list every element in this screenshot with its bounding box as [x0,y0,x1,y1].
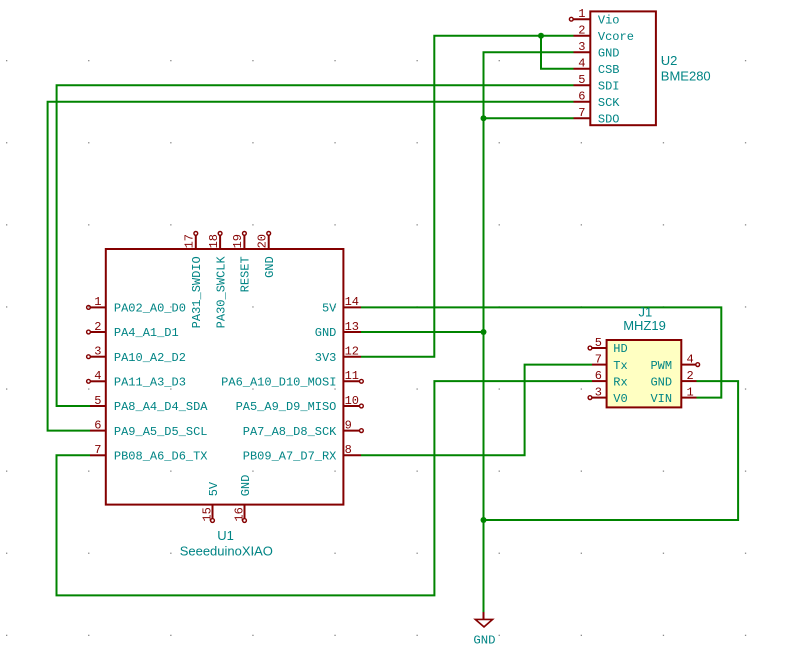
U1 pin 7 PB08_A6_D6_TX [90,443,208,463]
svg-text:GND: GND [598,46,620,60]
svg-text:11: 11 [345,369,359,383]
wire U1 GND branch [361,331,484,333]
svg-text:GND: GND [315,326,337,340]
svg-text:2: 2 [687,369,694,383]
U1 reference label [217,528,234,543]
J1 pin 6 Rx [592,369,628,389]
svg-text:3: 3 [578,40,585,54]
svg-text:5V: 5V [322,302,337,316]
svg-text:U1: U1 [217,528,234,543]
U2 pin 6 SCK [574,90,621,110]
svg-text:5: 5 [94,394,101,408]
svg-text:Rx: Rx [613,375,627,389]
svg-text:GND: GND [239,475,253,497]
U2 pin 4 CSB [574,57,620,77]
svg-text:RESET: RESET [239,256,253,292]
wire 5V to VIN [361,307,721,397]
U1 pin 20 GND [256,232,278,278]
IC U2 BME280 body [590,11,656,125]
svg-text:3: 3 [94,345,101,359]
svg-text:4: 4 [94,369,101,383]
svg-text:PA11_A3_D3: PA11_A3_D3 [114,376,186,390]
U2 pin 7 SDO [574,106,620,126]
svg-text:SDI: SDI [598,79,620,93]
svg-text:PA9_A5_D5_SCL: PA9_A5_D5_SCL [114,425,208,439]
U1 pin 14 5V [322,295,361,315]
svg-text:PB08_A6_D6_TX: PB08_A6_D6_TX [114,450,208,464]
svg-text:PA6_A10_D10_MOSI: PA6_A10_D10_MOSI [221,376,336,390]
U1 pin 11 PA6_A10_D10_MOSI [221,369,363,389]
U1 pin 6 PA9_A5_D5_SCL [90,418,208,438]
svg-text:10: 10 [345,394,359,408]
U1 pin 17 PA31_SWDIO [183,232,205,329]
svg-text:1: 1 [94,295,101,309]
U1 value SeeeduinoXIAO [180,543,273,558]
svg-text:VIN: VIN [650,392,672,406]
svg-text:PA30_SWCLK: PA30_SWCLK [214,256,228,329]
svg-text:SCK: SCK [598,96,620,110]
U1 pin 8 PB09_A7_D7_RX [243,443,361,463]
junction GND/U1 [481,329,487,335]
svg-text:PA02_A0_D0: PA02_A0_D0 [114,302,186,316]
svg-text:PA31_SWDIO: PA31_SWDIO [190,256,204,328]
svg-text:13: 13 [345,320,359,334]
U1 pin 15 5V [200,481,220,522]
J1 pin 7 Tx [592,352,628,372]
svg-text:14: 14 [345,295,359,309]
J1 reference label [639,304,653,319]
svg-text:2: 2 [94,320,101,334]
svg-text:PB09_A7_D7_RX: PB09_A7_D7_RX [243,450,337,464]
wire GND-SDO branch [484,117,574,119]
svg-text:Vio: Vio [598,13,620,27]
J1 pin 1 VIN [650,385,696,405]
U1 pin 9 PA7_A8_D8_SCK [243,418,364,438]
svg-text:19: 19 [231,234,245,248]
U2 value BME280 [661,69,711,84]
svg-text:PA8_A4_D4_SDA: PA8_A4_D4_SDA [114,400,208,414]
wire RX-Tx [361,365,592,456]
svg-text:PA7_A8_D8_SCK: PA7_A8_D8_SCK [243,425,337,439]
U1 pin 18 PA30_SWCLK [207,232,229,329]
U2 reference label [661,53,678,68]
wire GND rail to MHZ19 [484,381,739,520]
svg-text:6: 6 [94,418,101,432]
wire Vcore-CSB branch [541,36,574,69]
svg-text:4: 4 [578,57,585,71]
connector J1 MHZ19 body [607,340,682,407]
svg-text:Vcore: Vcore [598,30,634,44]
IC U1 SeeeduinoXIAO body [106,249,344,505]
junction GND rail [481,517,487,523]
svg-text:5V: 5V [207,481,221,496]
svg-text:16: 16 [232,507,246,521]
U1 pin 2 PA4_A1_D1 [87,320,179,340]
svg-text:12: 12 [345,345,359,359]
wire SCK-SCL [48,102,574,431]
svg-text:HD: HD [613,342,627,356]
J1 pin 3 V0 [588,385,628,405]
junction Vcore/CSB [538,33,544,39]
U1 pin 4 PA11_A3_D3 [87,369,186,389]
wire SDI-SDA [57,85,574,406]
svg-text:20: 20 [256,234,270,248]
svg-text:6: 6 [578,90,585,104]
svg-text:5: 5 [578,73,585,87]
svg-text:7: 7 [94,443,101,457]
U1 pin 19 RESET [231,232,253,293]
svg-text:4: 4 [687,352,694,366]
U1 pin 13 GND [315,320,361,340]
svg-text:7: 7 [595,352,602,366]
svg-text:GND: GND [650,375,672,389]
ground symbol [475,612,492,627]
svg-text:PA5_A9_D9_MISO: PA5_A9_D9_MISO [236,400,337,414]
svg-text:GND: GND [473,634,495,648]
U1 pin 5 PA8_A4_D4_SDA [90,394,208,414]
U2 pin 2 Vcore [574,24,634,44]
svg-text:SDO: SDO [598,112,620,126]
svg-text:7: 7 [578,106,585,120]
svg-text:PA4_A1_D1: PA4_A1_D1 [114,326,179,340]
J1 value MHZ19 [623,318,666,333]
U1 pin 12 3V3 [315,345,361,365]
U1 pin 3 PA10_A2_D2 [87,345,186,365]
svg-text:3: 3 [595,385,602,399]
svg-text:PWM: PWM [650,359,672,373]
U2 pin 1 Vio [569,7,619,27]
J1 pin 4 PWM [650,352,699,372]
svg-text:MHZ19: MHZ19 [623,318,666,333]
svg-text:CSB: CSB [598,63,620,77]
J1 pin 5 HD [588,336,628,356]
J1 pin 2 GND [650,369,696,389]
svg-text:8: 8 [345,443,352,457]
junction GND/SDO [481,115,487,121]
svg-text:15: 15 [200,507,214,521]
svg-text:Tx: Tx [613,359,627,373]
svg-text:2: 2 [578,24,585,38]
svg-text:SeeeduinoXIAO: SeeeduinoXIAO [180,543,273,558]
svg-text:1: 1 [578,7,585,21]
wire TX-Rx [57,381,593,595]
svg-text:17: 17 [183,234,197,248]
svg-text:GND: GND [263,256,277,278]
svg-text:18: 18 [207,234,221,248]
ground net label GND [473,634,495,648]
U2 pin 5 SDI [574,73,620,93]
wire 3V3-Vcore [361,36,574,357]
svg-text:PA10_A2_D2: PA10_A2_D2 [114,351,186,365]
svg-text:V0: V0 [613,392,627,406]
svg-text:1: 1 [687,385,694,399]
U1 pin 16 GND [232,475,252,523]
U2 pin 3 GND [574,40,620,60]
U1 pin 1 PA02_A0_D0 [87,295,186,315]
svg-text:5: 5 [595,336,602,350]
wire GND vertical [484,52,574,612]
svg-text:3V3: 3V3 [315,351,337,365]
svg-text:9: 9 [345,418,352,432]
svg-text:BME280: BME280 [661,69,711,84]
svg-text:U2: U2 [661,53,678,68]
svg-text:6: 6 [595,369,602,383]
U1 pin 10 PA5_A9_D9_MISO [236,394,364,414]
